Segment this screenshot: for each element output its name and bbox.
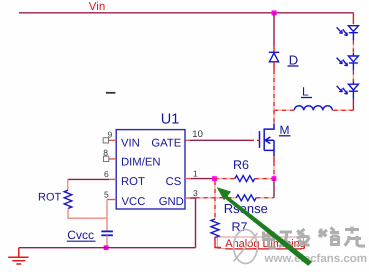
- wire LED2 to LED3 (dashed): [352, 71, 354, 82]
- watermark Chinese characters: [262, 227, 365, 249]
- pin 8 stub with no-connect square: [109, 158, 116, 160]
- wire CS node to R6 and R6 to source node (dashed): [215, 178, 235, 180]
- wire R7 bottom to rail: [215, 237, 221, 248]
- svg-text:Vin: Vin: [89, 1, 105, 13]
- wire LED3 bottom corner to inductor: [352, 99, 354, 110]
- resistor ROT: [64, 190, 72, 208]
- resistor R7: [211, 219, 219, 238]
- svg-text:GND: GND: [159, 196, 184, 208]
- wire CS node down to R7 (dashed): [214, 181, 216, 219]
- svg-text:9: 9: [108, 130, 113, 140]
- IC U1 box: [116, 130, 185, 209]
- capacitor Cvcc: [101, 230, 113, 232]
- svg-text:Cvcc: Cvcc: [67, 228, 94, 242]
- svg-text:3: 3: [193, 188, 198, 198]
- wire right drop to LED string: [352, 13, 354, 24]
- svg-text:VIN: VIN: [121, 138, 140, 150]
- diode D: [269, 52, 279, 62]
- wire Vin top rail: [19, 12, 354, 14]
- node junction source / R6: [272, 176, 277, 181]
- wire gate to U1 GATE pin: [185, 139, 190, 141]
- svg-text:CS: CS: [166, 176, 182, 188]
- inductor L: [294, 106, 332, 111]
- pin 6 wire to ROT: [109, 178, 116, 180]
- wire bottom ground rail: [19, 247, 196, 249]
- LED D2: [337, 53, 359, 71]
- transistor M (N-MOSFET): [260, 124, 275, 157]
- svg-text:www.elecfans.com: www.elecfans.com: [264, 253, 367, 265]
- watermark logo ellipse: [234, 230, 258, 264]
- wire ROT bottom to Cvcc node: [68, 209, 107, 219]
- svg-text:6: 6: [104, 169, 109, 179]
- wire rail to diode top: [273, 13, 275, 45]
- svg-text:8: 8: [103, 148, 108, 158]
- svg-text:DIM/EN: DIM/EN: [121, 157, 161, 169]
- wire drain node down to MOSFET drain (dashed): [273, 110, 275, 123]
- svg-text:M: M: [280, 123, 290, 137]
- svg-text:ROT: ROT: [121, 176, 145, 188]
- resistor Rsense: [236, 195, 256, 201]
- green annotation arrow: [217, 187, 312, 266]
- wire MOSFET source down to CS node: [273, 156, 275, 162]
- svg-text:L: L: [302, 85, 309, 99]
- wire diode D to drain node (dashed highlight): [273, 62, 275, 70]
- svg-text:R6: R6: [233, 158, 249, 172]
- wire LED1 to LED2 (dashed): [352, 40, 354, 53]
- wire CS pin 1 to node: [185, 178, 191, 180]
- svg-text:10: 10: [192, 129, 203, 140]
- svg-text:1: 1: [193, 169, 198, 179]
- pin 5 wire to Cvcc: [107, 199, 116, 201]
- svg-text:U1: U1: [161, 112, 180, 128]
- node junction Cvcc / ground rail: [104, 245, 109, 250]
- wire GND row to Rsense (dashed): [196, 197, 237, 199]
- svg-text:GATE: GATE: [151, 138, 181, 150]
- svg-text:VCC: VCC: [122, 196, 146, 208]
- wire source node down to Rsense: [273, 179, 275, 198]
- svg-text:ROT: ROT: [38, 191, 62, 203]
- svg-text:D: D: [289, 52, 298, 67]
- wire drain node to inductor (dashed): [274, 109, 294, 111]
- LED D3: [337, 81, 359, 99]
- annotation dashes: [106, 92, 116, 94]
- watermark white patch over rail: [197, 245, 214, 251]
- pin 9 stub with no-connect square: [109, 139, 117, 141]
- annotation Analog Dimming box: [217, 237, 303, 249]
- node junction CS: [212, 176, 217, 181]
- LED D1: [337, 26, 359, 41]
- node junction at Vin rail / diode D: [272, 10, 277, 15]
- wire GND pin 3 down to rail: [185, 197, 191, 199]
- svg-text:5: 5: [104, 189, 109, 199]
- resistor R6: [235, 176, 255, 182]
- ground symbol: [8, 248, 28, 264]
